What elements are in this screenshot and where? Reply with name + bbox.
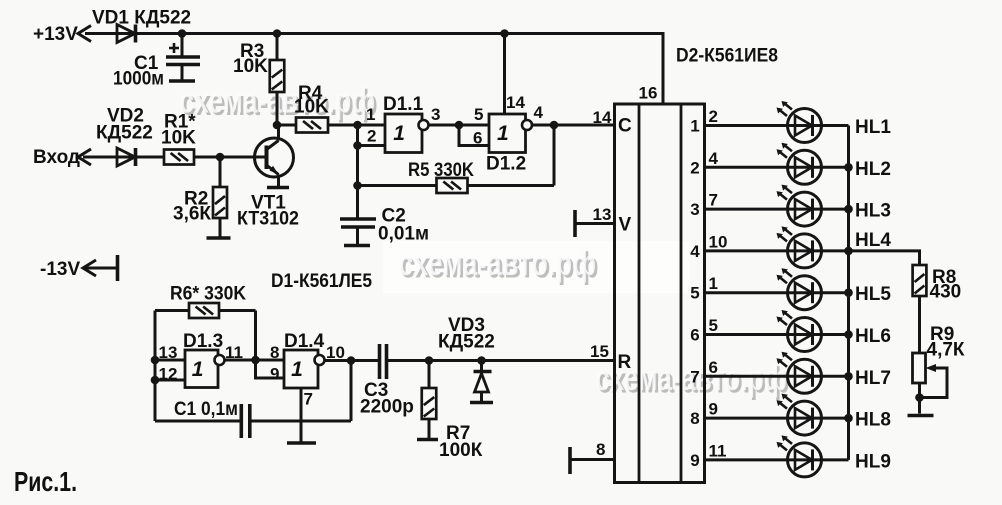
svg-text:6: 6 [709,358,718,377]
svg-text:1: 1 [690,117,699,136]
svg-text:D1-К561ЛЕ5: D1-К561ЛЕ5 [271,271,372,292]
svg-text:HL9: HL9 [855,451,891,472]
svg-text:D1.1: D1.1 [383,94,424,115]
svg-text:8: 8 [596,440,605,459]
svg-text:D1.4: D1.4 [284,331,325,352]
svg-text:4,7К: 4,7К [927,340,965,361]
svg-text:15: 15 [590,342,609,361]
svg-text:5: 5 [690,284,699,303]
svg-text:9: 9 [709,400,718,419]
svg-text:4: 4 [534,103,544,122]
svg-text:2: 2 [690,158,699,177]
svg-text:схема-авто.рф: схема-авто.рф [398,242,596,283]
svg-text:100К: 100К [439,440,483,461]
svg-text:6: 6 [690,326,699,345]
svg-text:7: 7 [690,367,699,386]
svg-text:3: 3 [431,105,440,124]
svg-text:10K: 10K [294,97,329,118]
svg-text:3: 3 [690,200,699,219]
svg-text:C: C [618,116,632,137]
svg-text:5: 5 [709,316,718,335]
svg-text:1: 1 [291,358,303,381]
svg-text:0,01м: 0,01м [378,224,429,245]
svg-text:7: 7 [304,390,313,409]
svg-text:430: 430 [930,282,962,303]
svg-text:14: 14 [506,93,525,112]
svg-text:3,6К: 3,6К [173,204,211,225]
svg-text:5: 5 [474,105,483,124]
svg-text:Рис.1.: Рис.1. [14,466,77,497]
svg-text:4: 4 [709,149,719,168]
svg-text:1: 1 [366,105,375,124]
svg-text:8: 8 [270,343,279,362]
svg-text:7: 7 [709,191,718,210]
svg-text:HL4: HL4 [855,230,891,251]
svg-text:2: 2 [367,127,376,146]
svg-text:8: 8 [690,409,699,428]
svg-text:16: 16 [639,84,658,103]
svg-text:10: 10 [326,343,345,362]
svg-text:HL6: HL6 [855,326,891,347]
svg-text:КД522: КД522 [438,332,495,353]
svg-text:КД522: КД522 [96,123,153,144]
svg-text:13: 13 [159,343,178,362]
svg-text:D1.3: D1.3 [183,331,223,352]
svg-text:1: 1 [709,274,718,293]
svg-text:HL5: HL5 [855,284,891,305]
svg-text:КТ3102: КТ3102 [237,209,299,230]
svg-text:+13V: +13V [33,24,78,45]
svg-text:9: 9 [270,365,279,384]
svg-text:4: 4 [690,242,700,261]
svg-text:R6* 330K: R6* 330K [170,284,246,305]
svg-text:1000м: 1000м [113,69,164,90]
svg-text:VD1 КД522: VD1 КД522 [92,8,191,29]
svg-text:6: 6 [473,129,482,148]
svg-text:D2-К561ИЕ8: D2-К561ИЕ8 [676,46,778,67]
svg-text:12: 12 [159,365,178,384]
svg-text:10K: 10K [233,56,268,77]
svg-text:HL8: HL8 [855,410,891,431]
svg-text:9: 9 [690,451,699,470]
svg-text:R: R [618,352,632,373]
svg-text:2200р: 2200р [360,397,414,418]
svg-text:1: 1 [393,122,405,145]
svg-text:11: 11 [225,343,243,362]
svg-text:C1 0,1м: C1 0,1м [174,399,238,420]
svg-text:HL2: HL2 [855,159,891,180]
svg-text:14: 14 [593,108,612,127]
svg-text:-13V: -13V [40,259,80,280]
svg-text:1: 1 [497,122,509,145]
svg-text:Вход: Вход [33,147,80,168]
svg-text:1: 1 [192,358,204,381]
svg-text:2: 2 [709,107,718,126]
svg-text:D1.2: D1.2 [486,154,526,175]
svg-text:10: 10 [709,232,728,251]
svg-text:11: 11 [709,441,727,460]
svg-text:HL7: HL7 [855,368,891,389]
svg-text:HL1: HL1 [855,117,891,138]
svg-text:R5 330K: R5 330K [408,160,474,181]
svg-text:13: 13 [593,205,612,224]
svg-text:V: V [619,215,632,236]
svg-text:HL3: HL3 [855,201,891,222]
svg-text:10K: 10K [161,128,196,149]
